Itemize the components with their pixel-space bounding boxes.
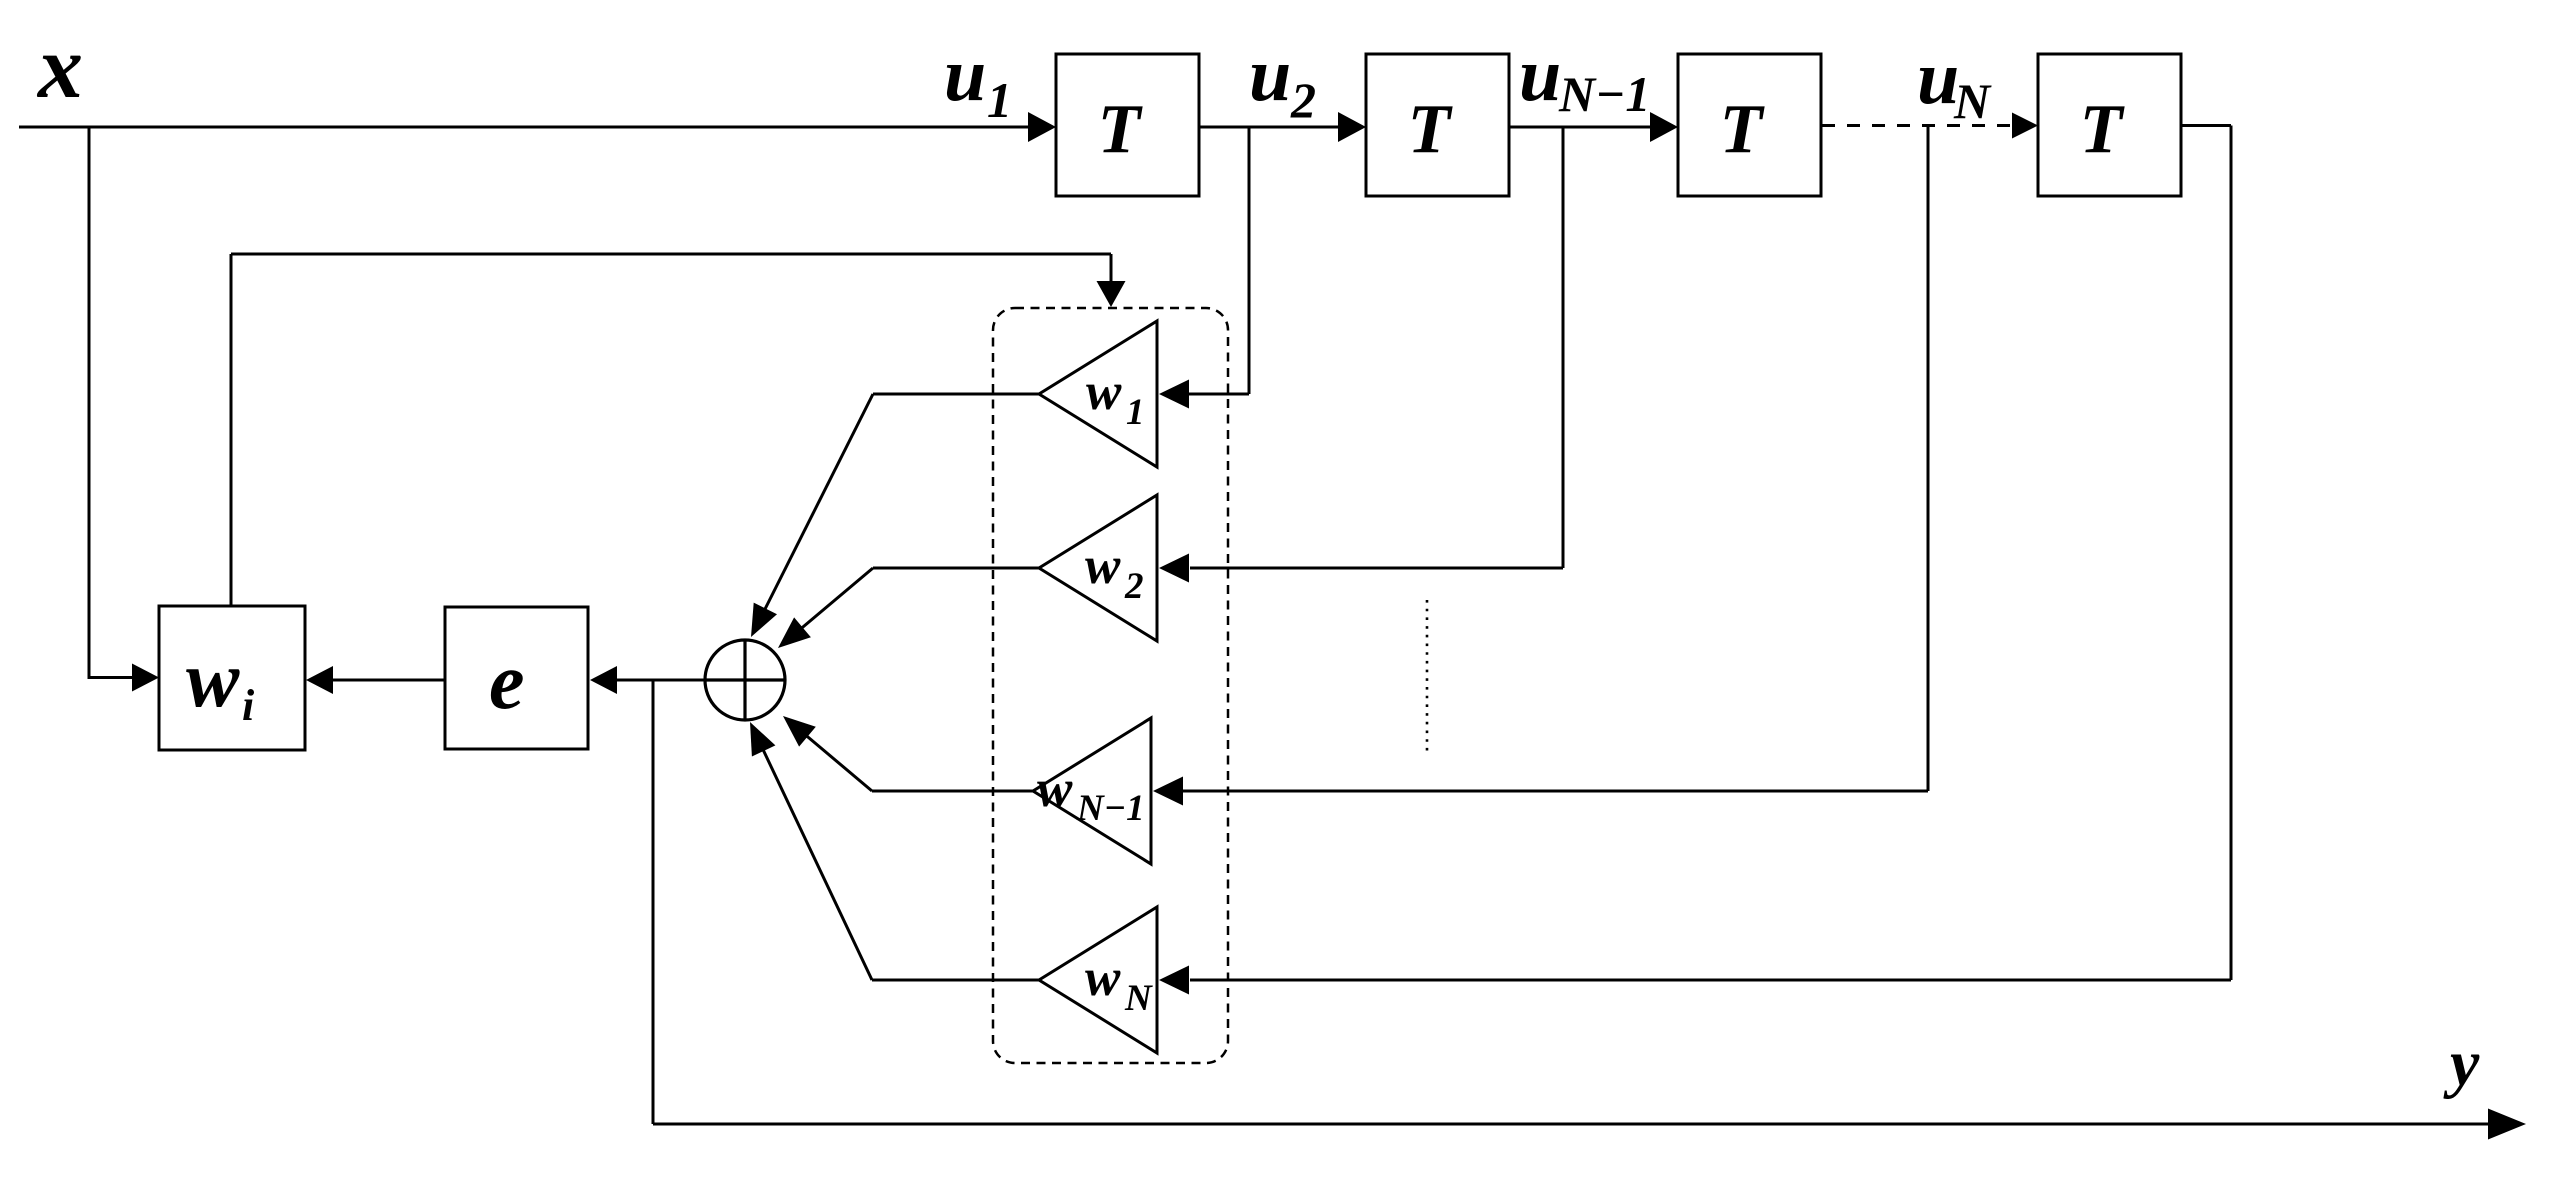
svg-text:N: N [1124,978,1153,1019]
gain w2 [1039,495,1157,641]
svg-text:u: u [1917,36,1959,120]
wire uN branch down to wN-1 [1927,126,1930,792]
wire u2 branch down to w1 [1248,127,1251,394]
delay T3 [1678,54,1821,196]
wire uN-1 branch down to w2 [1562,127,1565,568]
svg-text:T: T [1408,91,1454,168]
svg-text:w: w [1086,363,1122,421]
svg-text:N−1: N−1 [1558,66,1650,122]
wire dashed T3 to T4 [1822,124,2014,127]
wire wN-1 to summer [872,790,1033,793]
svg-text:2: 2 [1290,72,1316,128]
block e [445,607,588,749]
wire wN to summer [872,979,1039,982]
svg-text:w: w [186,636,240,724]
dots ellipsis [1426,600,1429,756]
delay T4 [2038,54,2181,196]
svg-text:u: u [1249,33,1291,117]
wire T1 to T2 [1199,126,1342,129]
dashed weights box [993,308,1228,1063]
wire w1 to summer [873,393,1039,396]
gain wN [1039,907,1157,1053]
svg-text:y: y [2443,1027,2480,1100]
svg-text:w: w [1085,949,1121,1007]
wire x input line [19,126,1032,129]
summer [705,640,785,720]
svg-text:x: x [36,18,83,117]
gain w1 [1039,321,1157,467]
wire summer to e [614,679,785,682]
wire into T1 with arrowhead [1028,112,1056,142]
svg-text:2: 2 [1124,566,1144,607]
svg-text:1: 1 [1126,392,1145,433]
svg-text:e: e [489,638,525,726]
wire e to wi [332,679,445,682]
svg-text:u: u [1519,33,1561,117]
svg-text:T: T [1720,91,1766,168]
delay T2 [1366,54,1509,196]
svg-text:1: 1 [987,72,1012,128]
svg-text:T: T [1098,91,1144,168]
wire wi output to weights (top horizontal) [231,253,1111,256]
wire y output [652,680,655,1124]
gain wN-1 [1033,718,1151,864]
wire T2 to T3 [1509,126,1654,129]
svg-text:N: N [1953,73,1992,129]
wire x branch down to wi [88,127,91,679]
svg-text:T: T [2080,91,2126,168]
wire w2 to summer [873,567,1039,570]
svg-text:i: i [242,681,255,730]
svg-text:u: u [944,33,986,117]
wire T4 output down to wN [2181,124,2231,127]
block wi [159,606,305,750]
svg-text:N−1: N−1 [1076,788,1145,829]
delay T1 [1056,54,1199,196]
svg-text:w: w [1037,760,1073,818]
svg-text:w: w [1085,537,1121,595]
